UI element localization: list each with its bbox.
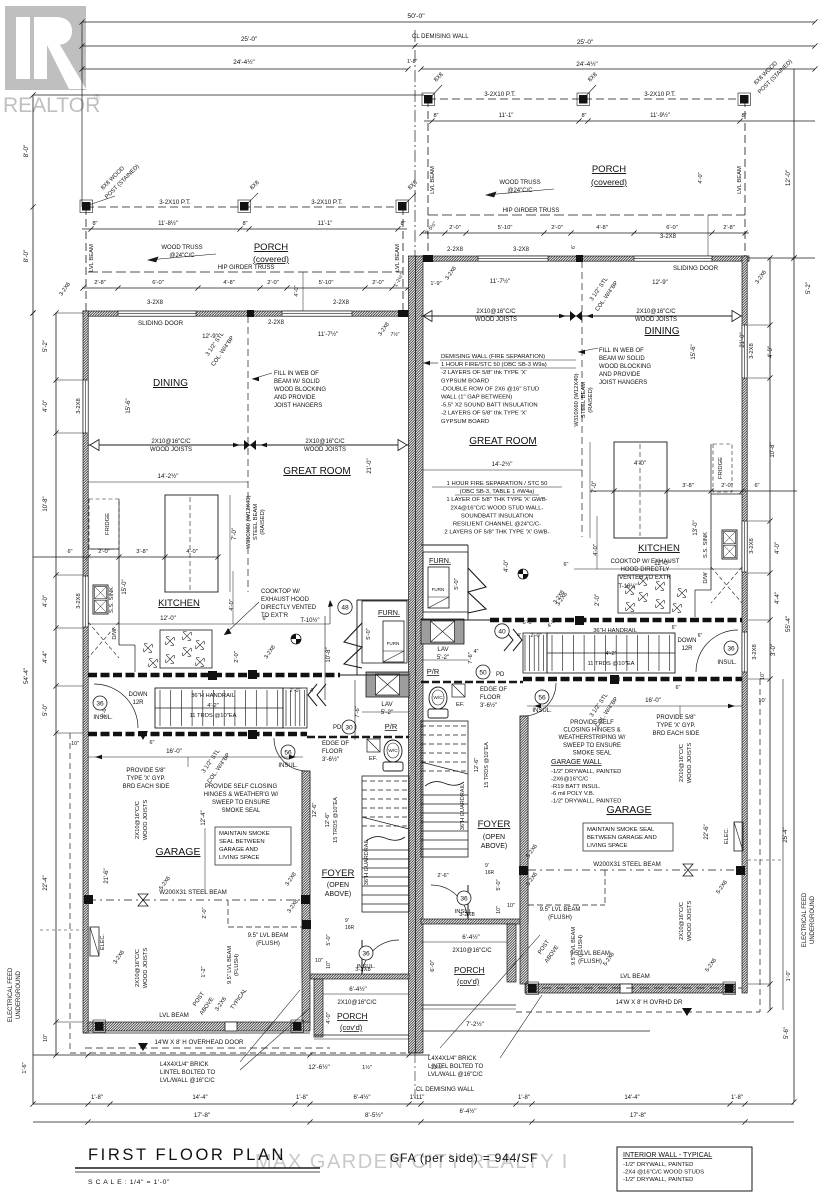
svg-text:14'-4": 14'-4" (192, 1095, 207, 1101)
post (398, 202, 407, 211)
right winder stair (523, 633, 547, 673)
svg-text:L4X4X1/4" BRICK: L4X4X1/4" BRICK (160, 1062, 209, 1068)
demising wall below porches (409, 1052, 421, 1054)
svg-text:WOOD BLOCKING: WOOD BLOCKING (274, 387, 326, 393)
svg-text:T-10½": T-10½" (300, 617, 319, 624)
svg-text:11'-7½": 11'-7½" (318, 331, 338, 338)
svg-text:3-2X10 P.T.: 3-2X10 P.T. (311, 199, 343, 206)
svg-text:24'-4½": 24'-4½" (233, 58, 255, 66)
svg-text:W200X31 STEEL BEAM: W200X31 STEEL BEAM (159, 889, 227, 896)
svg-text:8'-0": 8'-0" (23, 250, 30, 263)
svg-text:25'-4": 25'-4" (783, 827, 789, 842)
svg-text:-5.5" X2 SOUND BATT INSULATION: -5.5" X2 SOUND BATT INSULATION (441, 403, 538, 409)
right beam splice (570, 311, 582, 321)
svg-text:LVL/WALL @16"C/C: LVL/WALL @16"C/C (160, 1078, 215, 1084)
svg-text:7½": 7½" (390, 331, 399, 338)
right edge of floor dashed (421, 681, 523, 683)
svg-text:ELEC.: ELEC. (724, 827, 730, 844)
insulated wall (88, 673, 340, 678)
svg-text:6": 6" (754, 483, 759, 489)
right dim line 55'-4 (793, 258, 795, 1102)
right kitchen fridge (713, 444, 732, 492)
svg-text:5'-2": 5'-2" (381, 709, 393, 716)
svg-text:W/C: W/C (388, 748, 398, 754)
svg-text:LVL BEAM: LVL BEAM (159, 1012, 189, 1019)
svg-text:1'-2": 1'-2" (201, 966, 207, 977)
svg-text:36: 36 (362, 950, 370, 957)
svg-text:RESILIENT CHANNEL @24"C/C-: RESILIENT CHANNEL @24"C/C- (453, 522, 541, 528)
left entry door swing (362, 940, 399, 977)
insulated wall (490, 618, 742, 623)
post (528, 984, 537, 993)
svg-text:12'-6": 12'-6" (325, 813, 331, 828)
svg-text:6'-4½": 6'-4½" (462, 934, 479, 941)
svg-text:36"H GUARDRAIL: 36"H GUARDRAIL (460, 784, 466, 830)
svg-text:COOKTOP W/: COOKTOP W/ (261, 589, 300, 595)
right unit front window (478, 256, 548, 261)
left dim line 8'-0" porch segs (32, 95, 34, 313)
right note 56 (535, 690, 549, 704)
svg-text:5'-0": 5'-0" (366, 628, 372, 640)
left 10'-8 dim line (324, 616, 326, 700)
right steel beam line (421, 315, 742, 317)
dim line 25'-0" right (415, 45, 815, 47)
right foyer south wall (421, 919, 520, 924)
title underline (75, 1167, 320, 1169)
svg-text:S.S. SINK: S.S. SINK (703, 532, 709, 558)
left foyer west wall (302, 771, 310, 978)
svg-text:ELECTRICAL FEED: ELECTRICAL FEED (802, 892, 808, 947)
svg-text:WEATHERSTRIPING W/: WEATHERSTRIPING W/ (559, 735, 626, 741)
svg-text:BETWEEN GARAGE AND: BETWEEN GARAGE AND (587, 835, 657, 841)
right smoke seal box (583, 823, 673, 851)
svg-text:HINGES & WEATHER'G W/: HINGES & WEATHER'G W/ (204, 792, 279, 798)
svg-text:EF.: EF. (456, 702, 465, 708)
svg-text:22'-4": 22'-4" (43, 875, 49, 890)
svg-text:LVL BEAM: LVL BEAM (620, 973, 650, 980)
svg-text:2X10@16"C/C: 2X10@16"C/C (636, 309, 676, 315)
svg-text:7'-2½": 7'-2½" (466, 1020, 484, 1028)
right foyer east wall (520, 716, 528, 923)
svg-text:4'-0": 4'-0" (775, 542, 781, 554)
svg-text:INSUL.: INSUL. (93, 715, 113, 721)
svg-text:(FLUSH): (FLUSH) (578, 935, 584, 957)
right garage 16'-0 dim (527, 705, 742, 707)
svg-text:2'-8": 2'-8" (723, 225, 735, 231)
svg-text:5'-0": 5'-0" (523, 620, 534, 626)
right garage front wall (525, 984, 735, 993)
svg-text:22'-6": 22'-6" (704, 824, 710, 839)
svg-text:3-2X10 P.T.: 3-2X10 P.T. (644, 91, 676, 98)
post (424, 95, 433, 104)
post (240, 202, 249, 211)
svg-text:4': 4' (310, 688, 314, 694)
svg-text:7'-6": 7'-6" (355, 706, 361, 718)
svg-text:6'-4½": 6'-4½" (349, 986, 366, 993)
left EF box (367, 739, 380, 752)
watermark REALTOR logo (3, 6, 100, 117)
left garage-foyer door swing (274, 738, 307, 771)
steel column in left front wall (247, 310, 254, 317)
svg-text:10": 10" (43, 1034, 49, 1042)
svg-text:3'-6½": 3'-6½" (322, 756, 339, 763)
svg-text:30: 30 (345, 724, 353, 731)
svg-text:2X10@16"C/C: 2X10@16"C/C (135, 949, 141, 987)
left dim line segments (55, 313, 57, 1055)
svg-text:SEAL BETWEEN: SEAL BETWEEN (219, 839, 265, 845)
svg-text:14'W X 8' H OVERHEAD DOOR: 14'W X 8' H OVERHEAD DOOR (154, 1039, 244, 1046)
left note 36 hall (93, 696, 107, 710)
right steel column dashed line (581, 261, 583, 537)
svg-text:GREAT ROOM: GREAT ROOM (469, 436, 536, 447)
right porch front dim row (421, 232, 749, 234)
post (95, 1022, 104, 1031)
svg-text:2X10@16"C/C: 2X10@16"C/C (151, 439, 191, 445)
svg-text:GARAGE: GARAGE (607, 804, 652, 816)
svg-text:PD: PD (496, 672, 505, 678)
svg-text:DEMISING WALL (FIRE SEPARATION: DEMISING WALL (FIRE SEPARATION) (441, 354, 545, 360)
svg-text:WOOD JOISTS: WOOD JOISTS (304, 447, 346, 453)
right note 40 (495, 624, 509, 638)
west window 3-2X8 dining (83, 380, 88, 433)
svg-text:4'-4": 4'-4" (775, 592, 781, 604)
svg-text:JOIST HANGERS: JOIST HANGERS (274, 403, 322, 409)
svg-text:10": 10" (760, 672, 766, 680)
svg-text:8": 8" (741, 113, 746, 119)
svg-text:2X10@16"C/C: 2X10@16"C/C (337, 1000, 377, 1006)
left foyer stair dashed treads (362, 781, 409, 826)
svg-text:6": 6" (564, 562, 569, 568)
left winder treads (286, 690, 304, 726)
svg-text:DOWN: DOWN (678, 638, 697, 644)
svg-text:DIRECTLY VENTED: DIRECTLY VENTED (261, 605, 317, 611)
left closet bifold doors (308, 684, 326, 706)
svg-text:FOYER: FOYER (478, 819, 511, 830)
svg-text:24'-4½": 24'-4½" (576, 60, 598, 68)
svg-text:8'-0": 8'-0" (23, 145, 30, 158)
svg-text:FURN.: FURN. (429, 556, 451, 565)
post at demising end of left front wall (398, 310, 408, 317)
svg-text:MAINTAIN SMOKE SEAL: MAINTAIN SMOKE SEAL (587, 827, 655, 833)
right stair wall posts (575, 616, 584, 625)
right stair treads (552, 635, 670, 671)
dim line 24'-4 1/2" right (421, 68, 815, 70)
svg-text:4'-8": 4'-8" (596, 225, 608, 231)
svg-text:15 TRDS @10"EA: 15 TRDS @10"EA (333, 797, 339, 843)
right porch post dim line (424, 120, 815, 122)
svg-text:4'-0": 4'-0" (326, 1012, 332, 1024)
svg-text:3-2X10 P.T.: 3-2X10 P.T. (484, 91, 516, 98)
svg-text:FLOOR: FLOOR (322, 749, 343, 755)
left unit west exterior wall (83, 311, 88, 1033)
svg-text:UNDERGROUND: UNDERGROUND (810, 895, 816, 944)
svg-text:6": 6" (67, 549, 72, 555)
right steel beam dashed (528, 869, 742, 871)
svg-text:11'-9½": 11'-9½" (650, 112, 670, 119)
right elec panel (734, 822, 743, 851)
left beam jog (227, 900, 229, 927)
svg-text:ABOVE): ABOVE) (481, 843, 507, 850)
left 14'-2.5 dim (88, 481, 248, 483)
right corner cabinet dashed (711, 567, 742, 603)
svg-text:-6 mil POLY V.B.: -6 mil POLY V.B. (551, 791, 595, 797)
left stair box (155, 688, 283, 728)
svg-text:INSUL.: INSUL. (532, 708, 552, 714)
svg-text:13'-0": 13'-0" (693, 520, 699, 535)
svg-text:TYPE 'X' GYP.: TYPE 'X' GYP. (127, 776, 166, 782)
svg-text:17'-8": 17'-8" (194, 1112, 210, 1119)
svg-text:LVL BEAM: LVL BEAM (737, 166, 743, 194)
left note 30 (342, 720, 356, 734)
svg-text:SLIDING DOOR: SLIDING DOOR (673, 265, 719, 272)
right unit front wall (421, 256, 749, 261)
svg-text:AND PROVIDE: AND PROVIDE (599, 372, 640, 378)
svg-text:WOOD JOISTS: WOOD JOISTS (475, 317, 517, 323)
right porch 7-2.5 dim (421, 1030, 650, 1032)
svg-text:(covered): (covered) (591, 177, 627, 187)
svg-text:LAV: LAV (437, 646, 449, 653)
svg-text:SWEEP TO ENSURE: SWEEP TO ENSURE (563, 743, 621, 749)
svg-text:25'-0": 25'-0" (577, 39, 593, 46)
svg-text:INSUL.: INSUL. (717, 660, 737, 666)
svg-text:-2X6@16"C/C: -2X6@16"C/C (551, 776, 589, 782)
left hall door swing (94, 684, 138, 728)
svg-text:8": 8" (242, 221, 247, 227)
svg-text:4'-0": 4'-0" (504, 560, 510, 572)
svg-text:HIP GIRDER TRUSS: HIP GIRDER TRUSS (218, 265, 275, 271)
svg-text:56: 56 (538, 694, 546, 701)
svg-text:FURN: FURN (432, 587, 445, 592)
svg-text:4'-2": 4'-2" (207, 703, 219, 709)
svg-text:LVL BEAM: LVL BEAM (89, 244, 95, 272)
svg-text:12R: 12R (132, 700, 144, 706)
svg-text:3-2X8: 3-2X8 (76, 398, 82, 413)
svg-text:10": 10" (326, 961, 332, 969)
svg-text:(OBC SB-3, TABLE 1 #W4a): (OBC SB-3, TABLE 1 #W4a) (460, 489, 535, 495)
svg-text:6": 6" (150, 740, 155, 746)
extension line y=95 to right porch (33, 94, 424, 96)
svg-text:6'-0": 6'-0" (152, 280, 164, 286)
svg-text:1 HOUR FIRE/STC 50 (OBC SB-3 W: 1 HOUR FIRE/STC 50 (OBC SB-3 W9a) (441, 362, 547, 368)
svg-text:EDGE OF: EDGE OF (322, 741, 349, 747)
svg-text:9': 9' (345, 918, 349, 924)
svg-text:3-2X8: 3-2X8 (147, 300, 164, 306)
left stair treads (160, 690, 278, 726)
svg-text:7'-0": 7'-0" (232, 528, 238, 540)
left note 48 (338, 600, 352, 614)
left stair wall posts (208, 671, 217, 680)
svg-text:EXHAUST HOOD: EXHAUST HOOD (261, 597, 310, 603)
svg-text:2'-0": 2'-0" (267, 280, 279, 286)
left porch boundary dashed (86, 206, 403, 208)
svg-text:2'-6": 2'-6" (437, 873, 448, 879)
svg-text:11½": 11½" (431, 1064, 444, 1071)
svg-text:40: 40 (498, 628, 506, 635)
right hall door swing (696, 630, 738, 672)
right note 36 hall (724, 641, 738, 655)
svg-text:LIVING SPACE: LIVING SPACE (219, 855, 260, 861)
svg-text:1'-6": 1'-6" (22, 1062, 28, 1073)
svg-text:2'-8": 2'-8" (94, 280, 106, 286)
post at demising end of right front wall (423, 255, 433, 262)
post (740, 95, 749, 104)
right EF box (452, 684, 465, 697)
svg-text:12'-6": 12'-6" (474, 758, 480, 773)
svg-text:AND PROVIDE: AND PROVIDE (274, 395, 315, 401)
svg-text:6'-0": 6'-0" (430, 960, 436, 972)
right top dim line 12'-0" (793, 69, 795, 258)
svg-text:10": 10" (71, 741, 79, 747)
svg-text:15 TRDS @10"EA: 15 TRDS @10"EA (484, 742, 490, 788)
svg-text:(OPEN: (OPEN (327, 882, 349, 889)
svg-text:SLIDING DOOR: SLIDING DOOR (138, 320, 184, 327)
left smoke seal box (215, 827, 291, 865)
svg-text:5'-0": 5'-0" (454, 578, 460, 590)
right core wall (467, 545, 469, 620)
demising wall right leaf (416, 256, 424, 1053)
left foyer stair treads (362, 850, 409, 904)
svg-text:6": 6" (672, 625, 677, 631)
svg-text:(RAISED): (RAISED) (588, 387, 594, 413)
svg-text:DINING: DINING (645, 326, 680, 337)
svg-text:(covered): (covered) (253, 254, 289, 264)
bottom dim line upper (33, 1054, 430, 1056)
svg-text:2X10@16"C/C: 2X10@16"C/C (679, 902, 685, 940)
dim line 25'-0" left (82, 45, 415, 47)
svg-text:FIRST FLOOR PLAN: FIRST FLOOR PLAN (88, 1146, 286, 1164)
svg-text:1'-0": 1'-0" (786, 971, 792, 982)
svg-text:P/R: P/R (385, 722, 398, 731)
svg-text:3-2X8: 3-2X8 (660, 234, 677, 240)
svg-text:FILL IN WEB OF: FILL IN WEB OF (599, 348, 644, 354)
svg-text:2 LAYERS OF 5/8" THK TYPE 'X': 2 LAYERS OF 5/8" THK TYPE 'X' GWB- (444, 530, 549, 536)
svg-text:W310X60 (W12X40): W310X60 (W12X40) (246, 495, 252, 548)
left toilet W/C (384, 740, 402, 762)
left edge of floor dashed (307, 736, 409, 738)
left kitchen 4'-0 vert dim (232, 571, 234, 624)
svg-text:6'-4½": 6'-4½" (354, 1094, 371, 1101)
svg-text:11'-1": 11'-1" (499, 113, 514, 119)
svg-text:48: 48 (341, 604, 349, 611)
right note 50 (476, 665, 490, 679)
left steel column dashed line (247, 316, 249, 592)
svg-text:-DOUBLE ROW OF 2X6 @16" STUD: -DOUBLE ROW OF 2X6 @16" STUD (441, 386, 539, 392)
svg-text:4'-0": 4'-0" (768, 346, 774, 358)
right rear porch east wall (507, 924, 516, 982)
svg-text:17'-8": 17'-8" (630, 1112, 646, 1119)
svg-text:1'-9": 1'-9" (430, 281, 441, 287)
svg-text:-2X4 @16"C/C WOOD STUDS: -2X4 @16"C/C WOOD STUDS (623, 1169, 704, 1175)
svg-text:2X10@16"C/C: 2X10@16"C/C (452, 948, 492, 954)
svg-text:4': 4' (517, 633, 521, 639)
svg-text:9.5" LVL BEAM: 9.5" LVL BEAM (540, 907, 581, 913)
right 14'-2.5 dim (421, 469, 582, 471)
svg-text:3-2X8: 3-2X8 (752, 644, 758, 659)
right furnace closet (423, 552, 468, 612)
svg-text:2X10@16"C/C: 2X10@16"C/C (135, 801, 141, 839)
right lav vanity (421, 619, 464, 644)
right entry door swing (431, 885, 468, 922)
svg-text:5'-10": 5'-10" (498, 225, 513, 231)
right beam jog (604, 870, 606, 905)
svg-text:11 TRDS @10"EA: 11 TRDS @10"EA (189, 713, 236, 719)
right toilet W/C (429, 687, 447, 709)
svg-text:1'-8": 1'-8" (91, 1095, 103, 1101)
svg-text:16R: 16R (345, 925, 355, 931)
svg-text:W200X31 STEEL BEAM: W200X31 STEEL BEAM (593, 861, 661, 868)
svg-text:12'-9": 12'-9" (202, 333, 218, 340)
svg-text:1'-11": 1'-11" (410, 1095, 425, 1101)
svg-text:FRIDGE: FRIDGE (718, 457, 724, 479)
svg-text:2'-0": 2'-0" (595, 594, 601, 606)
west window kitchen (83, 576, 88, 627)
left note 56 (281, 745, 295, 759)
svg-text:10'-8": 10'-8" (326, 647, 332, 662)
svg-text:TO EXT'R: TO EXT'R (261, 613, 289, 619)
svg-text:10': 10' (758, 698, 765, 704)
svg-text:SOUNDBATT INSULATION: SOUNDBATT INSULATION (461, 513, 533, 519)
svg-text:5'-2": 5'-2" (43, 340, 49, 352)
svg-text:6': 6' (571, 245, 577, 249)
svg-text:REALTOR: REALTOR (3, 94, 100, 117)
svg-text:16R: 16R (485, 870, 495, 876)
svg-text:3'-8": 3'-8" (682, 483, 694, 489)
svg-text:4'-0": 4'-0" (43, 400, 49, 412)
left furnace closet bifold doors (344, 623, 362, 668)
left overhead door (83, 1032, 310, 1034)
left porch post dim line (82, 228, 407, 230)
svg-text:CL DEMISING WALL: CL DEMISING WALL (416, 1086, 475, 1093)
left unit front wall (83, 311, 409, 316)
svg-text:3-2X10 P.T.: 3-2X10 P.T. (159, 199, 191, 206)
svg-text:2'-0": 2'-0" (234, 651, 240, 663)
svg-text:36"H HANDRAIL: 36"H HANDRAIL (191, 693, 235, 699)
svg-text:25'-0": 25'-0" (241, 36, 257, 43)
svg-text:6": 6" (676, 685, 681, 691)
svg-text:DOWN: DOWN (129, 692, 148, 698)
svg-text:W/C: W/C (433, 695, 443, 701)
svg-text:D/W: D/W (112, 628, 118, 640)
svg-text:ABOVE): ABOVE) (325, 891, 351, 898)
svg-text:(cov'd): (cov'd) (340, 1023, 363, 1032)
svg-text:PROVIDE SELF CLOSING: PROVIDE SELF CLOSING (205, 784, 278, 790)
svg-text:4'-0": 4'-0" (43, 595, 49, 607)
right porch boundary dashed (428, 98, 745, 100)
svg-text:VENTED TO EXTR: VENTED TO EXTR (619, 575, 671, 581)
right dim 25'-4 (782, 679, 784, 1010)
svg-text:11'-7½": 11'-7½" (490, 278, 510, 285)
svg-text:PORCH: PORCH (454, 965, 485, 975)
svg-text:PORCH: PORCH (592, 164, 626, 175)
post (293, 1022, 302, 1031)
bottom dim line mid (33, 1103, 794, 1105)
svg-text:(RAISED): (RAISED) (260, 509, 266, 535)
svg-text:9.5" LVL BEAM: 9.5" LVL BEAM (571, 927, 577, 965)
left garage east wall (302, 771, 310, 1024)
svg-text:ELEC.: ELEC. (100, 933, 106, 950)
svg-text:12'-4": 12'-4" (201, 810, 207, 825)
svg-text:PROVIDE 5/8": PROVIDE 5/8" (126, 768, 165, 774)
left kitchen fridge (89, 499, 119, 549)
left unit sliding door (118, 311, 196, 316)
left porch front dim row (82, 287, 408, 289)
svg-text:WOOD JOISTS: WOOD JOISTS (687, 901, 693, 942)
svg-text:12'-6": 12'-6" (312, 803, 318, 818)
left extension ticks (56, 312, 83, 314)
left rear porch floor (314, 1034, 409, 1036)
open arrow on right beam line at demising (423, 311, 432, 322)
right furnace closet bifold doors (468, 568, 486, 613)
